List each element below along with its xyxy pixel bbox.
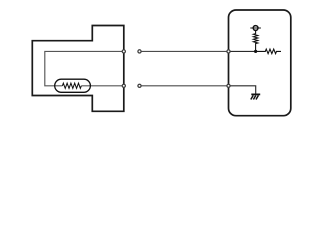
module pin (top)	[227, 50, 230, 53]
lamp lead (bottom, inside housing)	[81, 85, 124, 87]
lamp lead (top, inside housing)	[45, 51, 124, 85]
ground (chassis)	[251, 94, 260, 99]
filament of bulb	[62, 83, 81, 88]
wire (top, connector to module)	[141, 50, 228, 52]
terminal pin (housing bottom)	[122, 84, 125, 87]
resistor R1 (vertical pull-up)	[253, 31, 257, 52]
resistor R2 (horizontal)	[256, 49, 281, 54]
wire (module internal, bottom to ground)	[229, 86, 256, 94]
terminal pin (housing top)	[122, 50, 125, 53]
connector pin (harness top)	[138, 50, 141, 53]
bulb E1 envelope	[55, 79, 91, 92]
control module box	[229, 10, 291, 116]
wire (module internal, top to junction)	[229, 50, 256, 52]
power terminal B+	[250, 26, 261, 31]
wire (bottom, connector to module)	[141, 85, 228, 87]
module pin (bottom)	[227, 84, 230, 87]
junction dot (node)	[254, 50, 257, 53]
connector pin (harness bottom)	[138, 84, 141, 87]
bulb housing outline	[32, 26, 124, 112]
